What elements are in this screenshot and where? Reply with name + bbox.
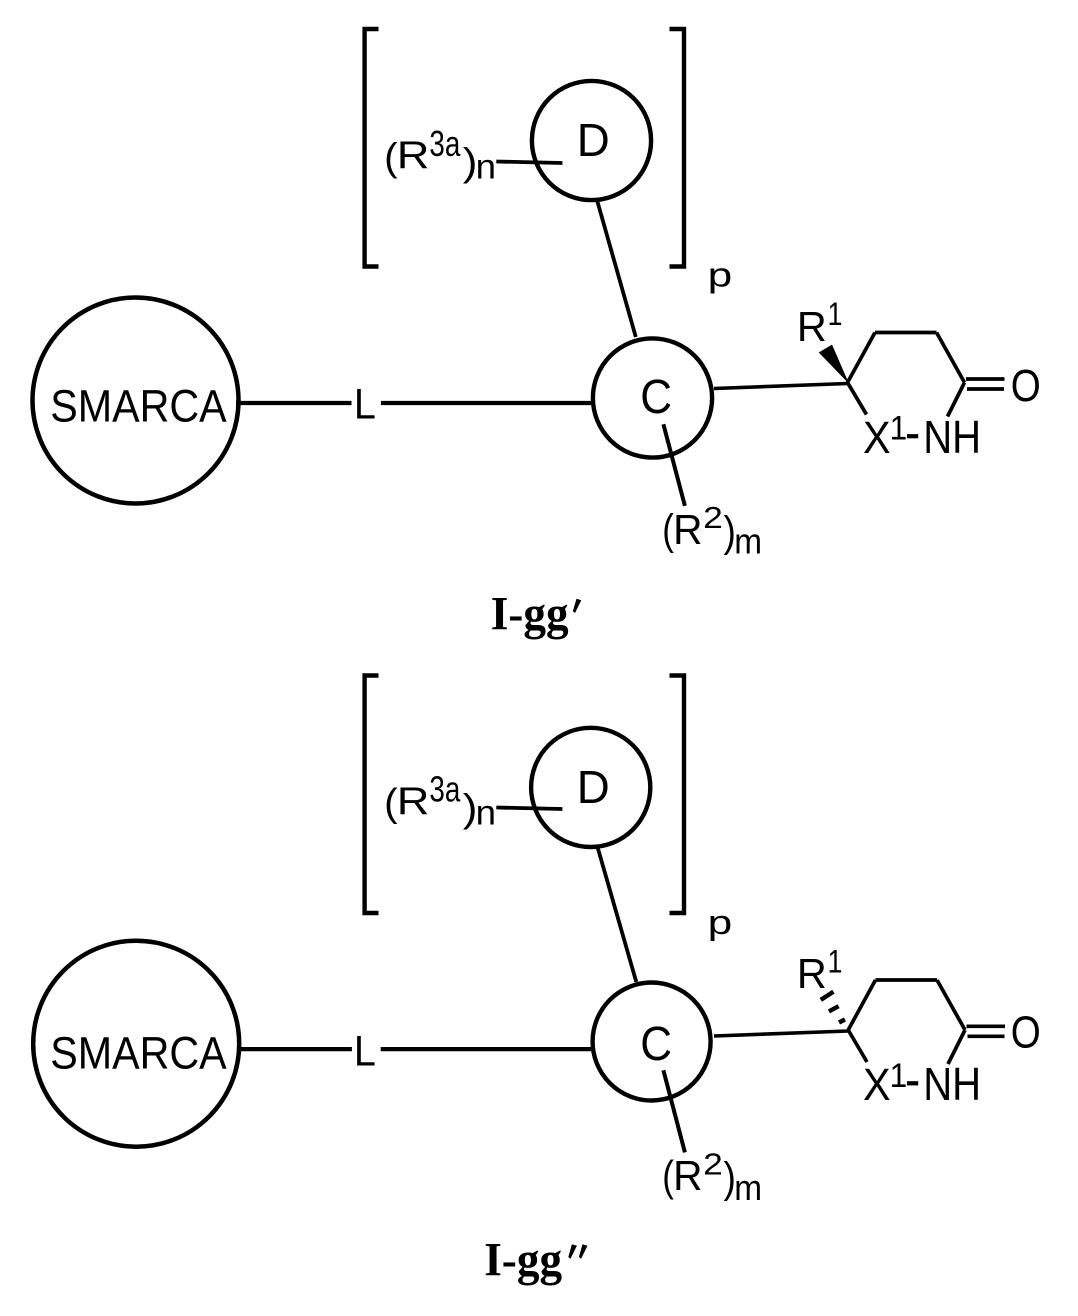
wire L to C (top) <box>381 401 593 405</box>
svg-text:2: 2 <box>703 500 723 535</box>
wire SMARCA to L (top) <box>236 401 352 405</box>
SMARCA circle (bottom) <box>33 941 239 1147</box>
svg-text:R: R <box>797 950 827 997</box>
right bracket (bottom) <box>670 676 685 914</box>
svg-text:m: m <box>734 1167 762 1208</box>
ring bond V3-V4 (bottom) <box>937 980 965 1030</box>
svg-text:C: C <box>640 370 672 424</box>
circle C (top) <box>593 338 712 457</box>
svg-text:X: X <box>863 412 891 463</box>
svg-text:n: n <box>476 148 496 187</box>
circle D (bottom) <box>531 728 650 847</box>
svg-text:L: L <box>354 1028 376 1076</box>
hashed wedge R1 dash 2 (bottom) <box>829 1006 839 1011</box>
ring bond V2-V3 (top) <box>875 331 937 335</box>
svg-text:(: ( <box>384 136 398 179</box>
svg-text:R: R <box>673 1152 702 1199</box>
ring bond V1 to X1 (top) <box>848 383 867 415</box>
svg-text:D: D <box>577 114 610 166</box>
svg-text:p: p <box>708 256 733 294</box>
svg-text:O: O <box>1011 1006 1041 1057</box>
svg-text:1: 1 <box>828 943 843 979</box>
hyphen X1-NH (bottom) <box>907 1081 918 1085</box>
wire D to C (top) <box>597 202 635 338</box>
right bracket (top) <box>670 29 685 267</box>
C=O double bond (bottom) <box>967 1024 1006 1028</box>
svg-text:2: 2 <box>703 1147 723 1182</box>
svg-text:1: 1 <box>828 296 843 332</box>
wire L to C (bottom) <box>381 1047 593 1051</box>
wire D to C (bottom) <box>598 848 637 982</box>
left bracket (top) <box>365 29 379 267</box>
svg-text:I-gg: I-gg <box>484 1235 562 1287</box>
double prime of I-gg'' (bottom) <box>568 1244 577 1258</box>
wire C to (R2)m (bottom) <box>663 1070 685 1152</box>
hashed wedge R1 dash 1 (bottom) <box>821 992 834 1000</box>
svg-text:n: n <box>476 794 496 833</box>
wire (R3a)n to D (bottom) <box>496 808 562 810</box>
circle D (top) <box>532 81 651 200</box>
svg-text:1: 1 <box>890 410 908 448</box>
wire C to stereocenter (bottom) <box>714 1031 848 1036</box>
svg-text:O: O <box>1011 360 1041 411</box>
ring bond V4 to NH (bottom) <box>948 1030 965 1064</box>
svg-text:L: L <box>354 380 376 428</box>
svg-text:(: ( <box>384 782 398 825</box>
svg-text:3a: 3a <box>429 769 461 810</box>
svg-text:p: p <box>708 904 733 942</box>
svg-text:D: D <box>577 761 610 813</box>
wire C to stereocenter (top) <box>714 384 848 389</box>
svg-text:SMARCA: SMARCA <box>50 1027 227 1078</box>
svg-text:SMARCA: SMARCA <box>50 381 227 432</box>
ring bond V4 to NH (top) <box>948 383 965 417</box>
wire (R3a)n to D (top) <box>496 162 562 164</box>
svg-text:X: X <box>863 1059 891 1110</box>
svg-text:R: R <box>397 134 430 177</box>
wire SMARCA to L (bottom) <box>237 1047 352 1051</box>
ring bond V3-V4 (top) <box>937 333 965 383</box>
hyphen X1-NH (top) <box>907 434 918 438</box>
SMARCA circle (top) <box>33 298 239 504</box>
svg-text:m: m <box>734 520 762 561</box>
svg-text:3a: 3a <box>429 123 461 164</box>
svg-text:R: R <box>397 780 430 823</box>
prime of I-gg' (top) <box>573 599 582 613</box>
hashed wedge R1 dash 3 (bottom) <box>839 1020 845 1023</box>
ring bond V2-V3 (bottom) <box>876 978 938 982</box>
svg-text:R: R <box>673 506 702 553</box>
ring bond V1-V2 (top) <box>848 333 876 383</box>
ring bond V1 to X1 (bottom) <box>848 1030 867 1062</box>
left bracket (bottom) <box>365 676 379 914</box>
svg-text:I-gg: I-gg <box>491 588 569 640</box>
ring bond V1-V2 (bottom) <box>848 980 875 1030</box>
circle C (bottom) <box>593 983 711 1101</box>
svg-text:C: C <box>640 1017 672 1071</box>
wedge bond R1 (top, solid) <box>820 345 848 381</box>
wire C to (R2)m (top) <box>663 424 685 506</box>
svg-text:1: 1 <box>890 1057 908 1095</box>
C=O double bond (top) <box>966 377 1005 381</box>
svg-text:NH: NH <box>923 1058 981 1110</box>
svg-text:R: R <box>797 303 827 350</box>
svg-text:NH: NH <box>923 411 981 463</box>
